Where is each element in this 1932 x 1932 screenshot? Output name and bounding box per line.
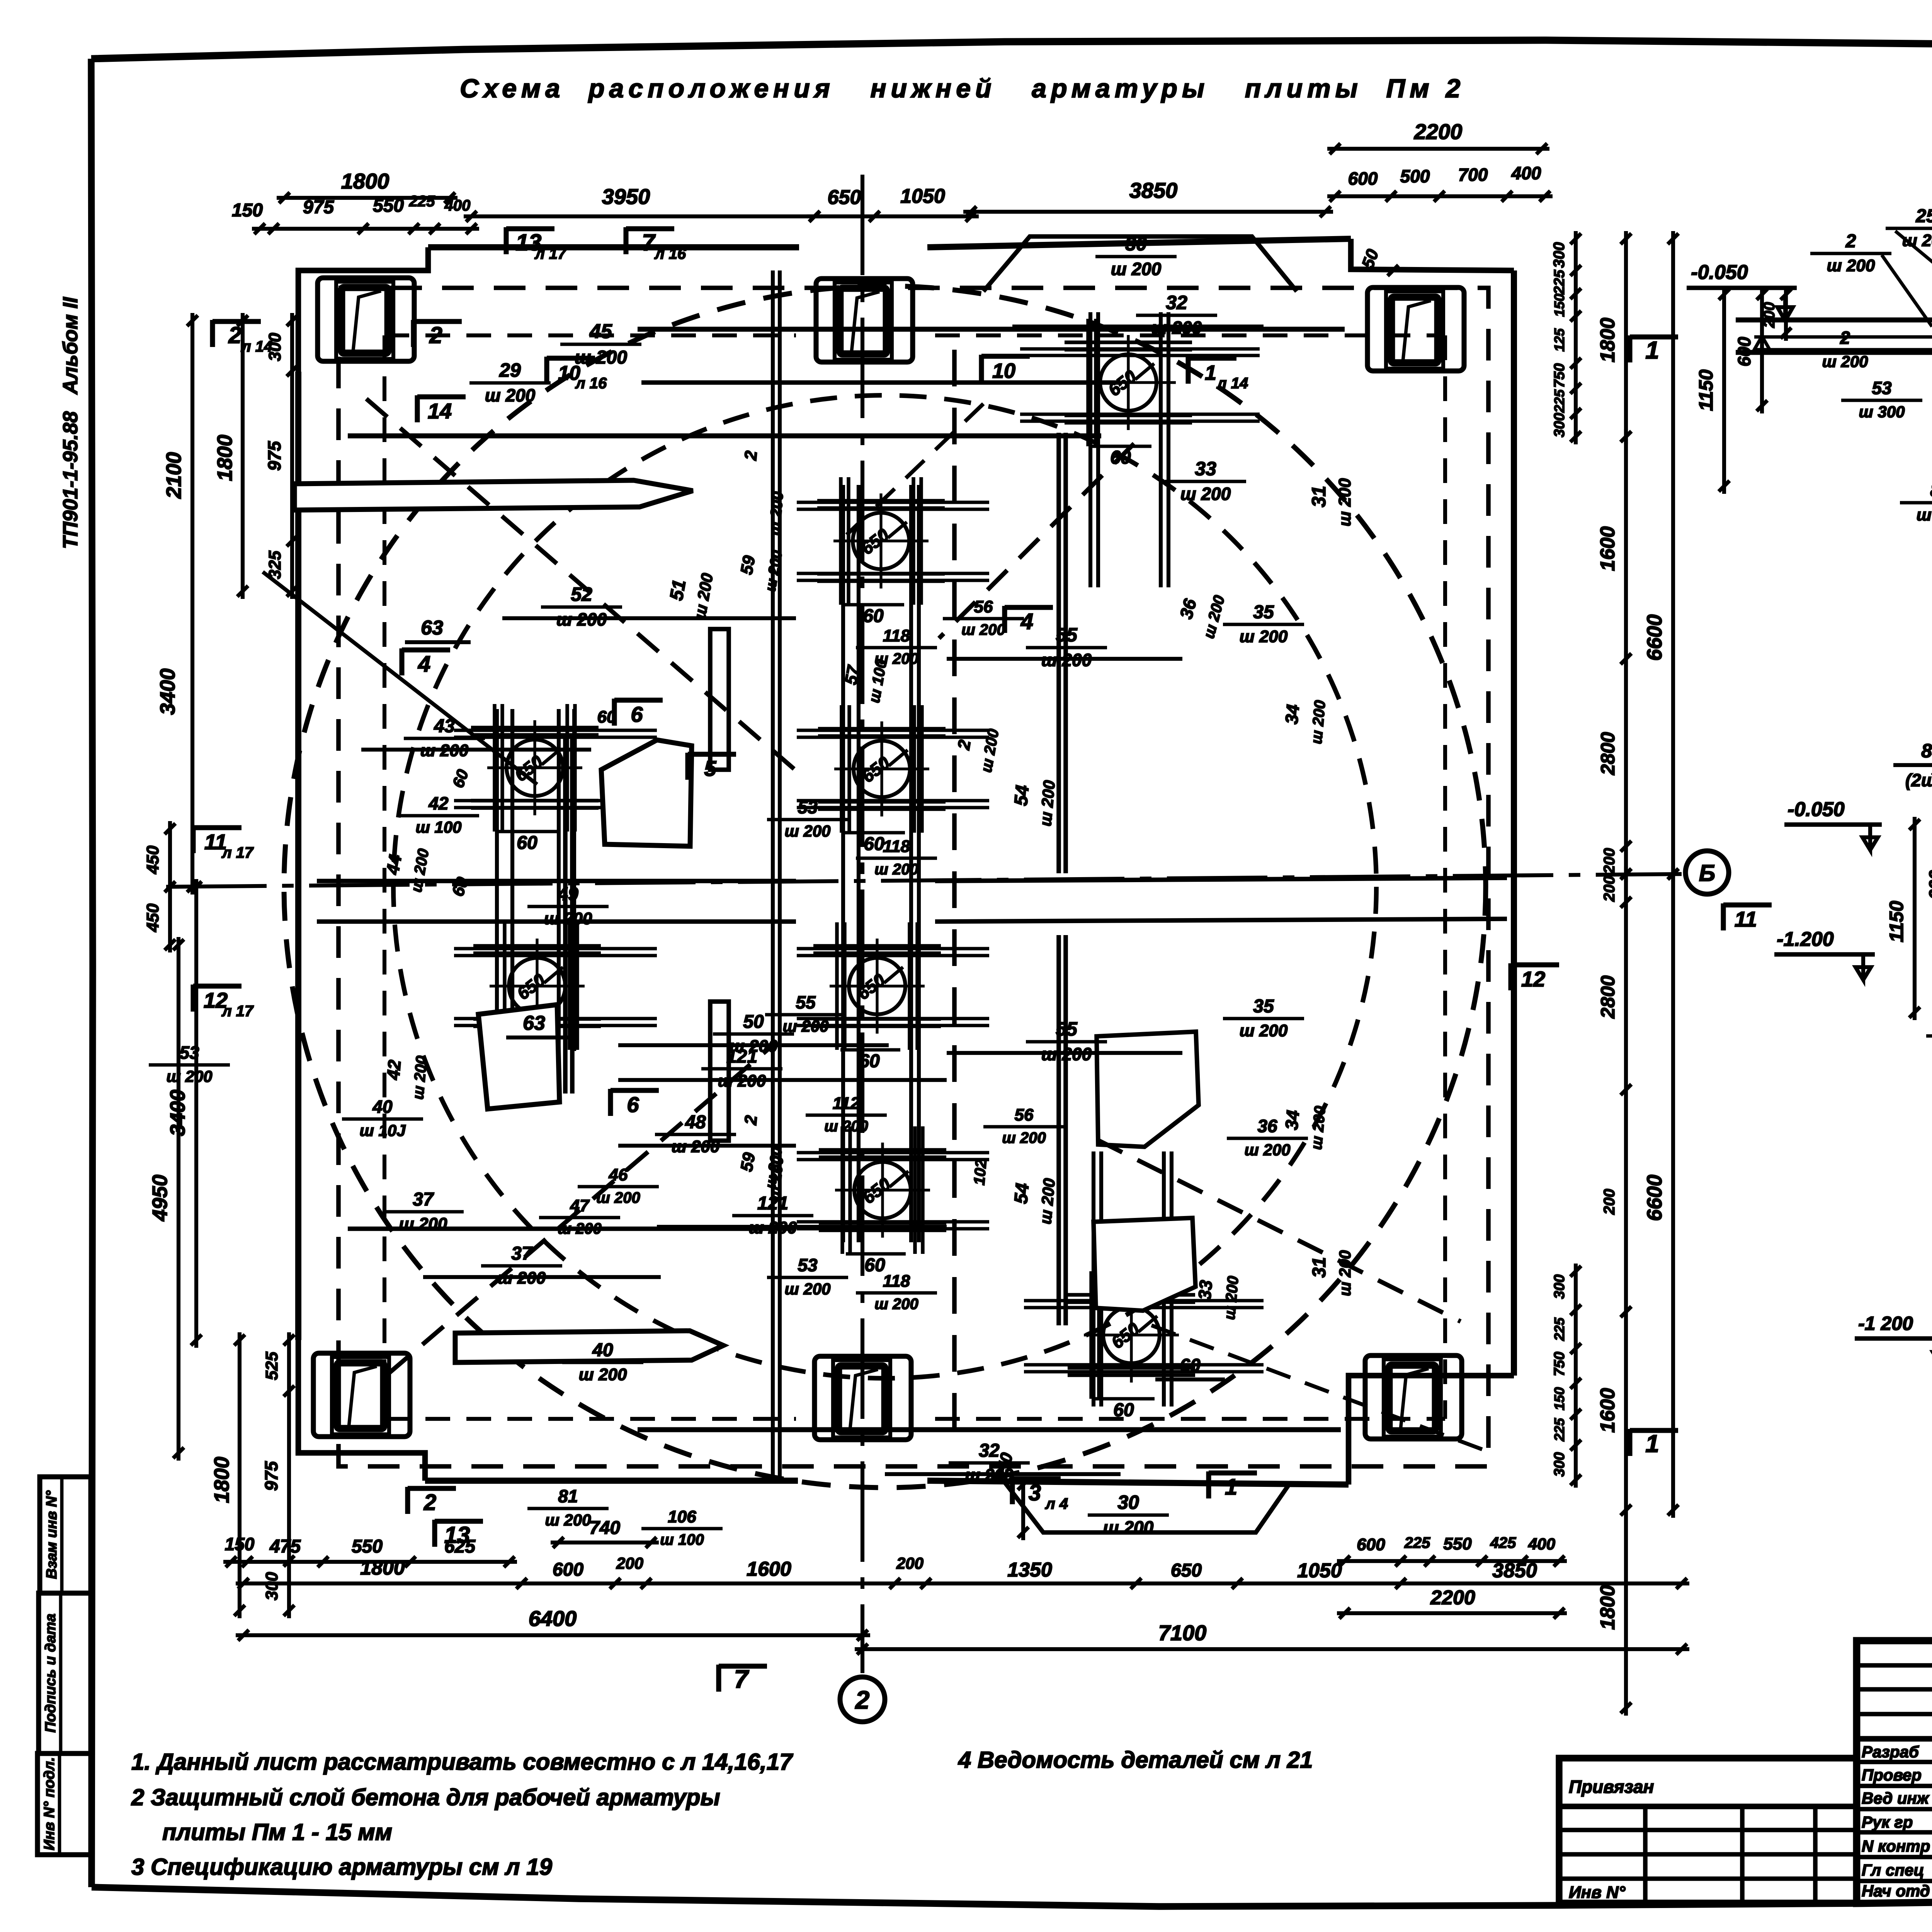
hole 650 #6 — [849, 958, 905, 1014]
svg-text:300: 300 — [1551, 413, 1568, 437]
rebar horizontal bundle upper-mid — [641, 380, 1121, 385]
dim top 650-1050 — [807, 214, 979, 218]
svg-text:650: 650 — [1171, 1560, 1202, 1581]
svg-text:600: 600 — [1357, 1535, 1385, 1554]
svg-text:2800: 2800 — [1597, 732, 1619, 775]
mark 10 л 16 — [544, 357, 549, 384]
svg-text:Схема расположения нижней: Схема расположения нижней арматуры плиты… — [460, 74, 1465, 103]
rebar long vertical pair A — [563, 734, 568, 1094]
rebar horizontal bundle top — [638, 327, 1345, 332]
svg-text:600: 600 — [1925, 870, 1932, 900]
dim left 2100 — [190, 313, 194, 895]
svg-text:3400: 3400 — [156, 668, 179, 715]
svg-text:1: 1 — [1645, 1430, 1659, 1458]
svg-text:37: 37 — [413, 1189, 434, 1210]
hole 650 #7 — [854, 1162, 911, 1218]
svg-text:700: 700 — [1458, 165, 1488, 185]
mark 10 upper-centre — [979, 355, 984, 382]
section mark 7 bottom — [716, 1665, 721, 1692]
svg-text:ш 200: ш 200 — [874, 650, 918, 667]
svg-text:Подпись и дата: Подпись и дата — [43, 1614, 59, 1733]
diagonal dashed leader 4 — [388, 1045, 773, 1374]
svg-text:35: 35 — [1253, 602, 1274, 622]
svg-text:14: 14 — [428, 399, 452, 423]
svg-text:ш 200: ш 200 — [1240, 627, 1288, 646]
svg-text:3 Спецификацию арматуры см л: 3 Спецификацию арматуры см л 19 — [131, 1854, 553, 1880]
column pad bottom-right — [1384, 1359, 1441, 1437]
svg-text:150: 150 — [232, 200, 263, 221]
dim bottom main row — [236, 1582, 1689, 1585]
svg-text:Б: Б — [1699, 860, 1715, 886]
rebar bar vertical 2 — [710, 1002, 729, 1141]
section 4-4 rebar hooks left — [1754, 336, 1770, 350]
svg-text:1: 1 — [1645, 336, 1659, 364]
svg-text:1350: 1350 — [1007, 1559, 1052, 1581]
dim top 3850 — [963, 210, 1333, 214]
section 4-4 slab left — [1736, 318, 1932, 323]
svg-text:400: 400 — [1528, 1535, 1555, 1553]
svg-text:45: 45 — [589, 320, 612, 343]
svg-text:60: 60 — [864, 1255, 885, 1276]
section mark 14 upper — [415, 395, 420, 422]
svg-text:-1.200: -1.200 — [1777, 928, 1834, 951]
svg-text:2: 2 — [741, 450, 761, 461]
column pad bay top-right — [1367, 287, 1464, 371]
svg-text:л 14: л 14 — [241, 338, 273, 355]
dim right 6600 upper — [1671, 231, 1675, 882]
svg-text:ш 10Ј: ш 10Ј — [359, 1121, 406, 1139]
svg-text:6600: 6600 — [1643, 614, 1666, 661]
svg-text:Провер: Провер — [1862, 1766, 1922, 1784]
section 4-4 leaders — [1895, 231, 1932, 294]
section mark 7 top — [623, 227, 628, 254]
svg-text:2800: 2800 — [1597, 975, 1619, 1019]
svg-text:ш 200: ш 200 — [545, 1511, 591, 1529]
svg-text:225: 225 — [1551, 1418, 1567, 1442]
slab edge step bottom-left — [298, 1340, 425, 1481]
hole 650 #3 — [507, 740, 563, 796]
svg-text:54: 54 — [1011, 1182, 1033, 1205]
svg-text:ш 100: ш 100 — [660, 1531, 704, 1548]
rebar bundle row horizontals — [797, 501, 989, 504]
svg-text:51: 51 — [666, 578, 690, 602]
hole 650 #2 — [853, 513, 909, 569]
slab edge step bottom-right — [1349, 1376, 1514, 1485]
svg-text:1050: 1050 — [1297, 1560, 1342, 1582]
svg-text:118: 118 — [883, 626, 910, 645]
svg-text:600: 600 — [1348, 168, 1378, 189]
column pad bay bottom-left — [313, 1353, 410, 1437]
svg-text:1600: 1600 — [1597, 1388, 1619, 1433]
svg-text:975: 975 — [303, 197, 334, 218]
hole 650 #8 — [1103, 1307, 1160, 1363]
slot bar lower — [455, 1331, 723, 1362]
section mark 2 centre — [411, 320, 416, 347]
section mark 2 left — [210, 320, 215, 347]
svg-text:Инв N° подл.: Инв N° подл. — [41, 1757, 58, 1850]
svg-text:ш 200: ш 200 — [1111, 259, 1162, 279]
dim bottom 7100 — [855, 1647, 1689, 1651]
svg-text:500: 500 — [1400, 166, 1430, 186]
svg-text:150: 150 — [1551, 1387, 1567, 1410]
svg-text:60: 60 — [863, 606, 884, 626]
svg-text:35: 35 — [1253, 996, 1274, 1017]
svg-text:60: 60 — [1180, 1355, 1201, 1376]
svg-text:475: 475 — [269, 1536, 301, 1557]
page frame bottom border — [92, 1887, 1932, 1906]
plan dashed secondary rect segments — [384, 333, 796, 337]
svg-text:36: 36 — [1257, 1116, 1277, 1136]
svg-text:34: 34 — [1281, 704, 1303, 725]
section mark 1 right top — [1627, 335, 1632, 362]
svg-text:1150: 1150 — [1886, 901, 1907, 942]
svg-text:4: 4 — [418, 651, 430, 677]
svg-text:ш 200: ш 200 — [782, 1017, 828, 1035]
column pad bottom-left — [332, 1357, 389, 1434]
dim right 1600 upper — [1624, 429, 1628, 667]
svg-text:48: 48 — [685, 1112, 706, 1133]
section mark 4 right — [1002, 606, 1007, 633]
svg-text:300: 300 — [262, 1572, 281, 1600]
svg-text:225: 225 — [409, 193, 435, 210]
svg-text:л 17: л 17 — [221, 844, 254, 861]
diagonal dashed leader 6 — [1151, 1325, 1492, 1453]
svg-text:Разраб: Разраб — [1862, 1743, 1919, 1761]
dim top 2200 — [1327, 147, 1549, 151]
rebar double vertical centre-left — [771, 270, 775, 1480]
svg-text:300: 300 — [1551, 1274, 1568, 1299]
svg-text:55: 55 — [796, 992, 816, 1012]
svg-text:Нач отд: Нач отд — [1862, 1882, 1930, 1900]
svg-text:44: 44 — [382, 853, 405, 876]
svg-text:-0.050: -0.050 — [1787, 798, 1845, 821]
dim bottom right 2200 — [1337, 1611, 1567, 1615]
svg-text:60: 60 — [859, 1051, 880, 1071]
svg-text:450: 450 — [143, 845, 162, 874]
svg-text:2200: 2200 — [1430, 1587, 1475, 1609]
rebar long vertical pair B — [1056, 433, 1061, 873]
svg-text:6: 6 — [631, 702, 643, 726]
section mark 3 bottom — [1010, 1477, 1015, 1504]
svg-text:1800: 1800 — [210, 1457, 233, 1503]
svg-text:л 17: л 17 — [534, 245, 567, 262]
plan dashed inner boundary rect — [338, 288, 1488, 1466]
svg-text:ш 200: ш 200 — [1244, 1141, 1290, 1159]
svg-text:2: 2 — [228, 322, 241, 348]
svg-text:л 4: л 4 — [1045, 1495, 1068, 1512]
axis horizontal B — [166, 874, 1682, 887]
slab top edge left span — [428, 244, 799, 250]
svg-text:л 16: л 16 — [654, 245, 686, 262]
dim 740 bottom — [551, 1541, 659, 1544]
svg-text:84: 84 — [1930, 480, 1932, 501]
svg-text:ш 200: ш 200 — [596, 1189, 640, 1206]
section mark 1 right bottom — [1627, 1429, 1632, 1456]
dim bottom right sub row — [1337, 1559, 1567, 1563]
slab edge step top-left — [298, 247, 428, 372]
rebar bundle bottom hole verticals — [1092, 1151, 1095, 1406]
svg-text:ш 200: ш 200 — [1917, 505, 1932, 524]
dim top 3950 — [464, 214, 822, 218]
section mark 4 left — [399, 648, 404, 675]
svg-text:33: 33 — [1195, 458, 1216, 480]
rebar bar vertical 1 — [710, 629, 729, 770]
svg-text:56: 56 — [1015, 1105, 1034, 1124]
dim right sub chain — [1574, 231, 1578, 444]
section mark 6 lower — [608, 1089, 613, 1116]
svg-text:1: 1 — [1225, 1475, 1237, 1500]
svg-text:525: 525 — [262, 1352, 281, 1380]
slab bottom edge right span — [927, 1481, 1349, 1485]
key quad right-upper — [1097, 1032, 1199, 1147]
svg-text:плиты Пм 1 - 15 мм: плиты Пм 1 - 15 мм — [162, 1819, 392, 1845]
svg-text:750: 750 — [1551, 1352, 1568, 1376]
svg-text:740: 740 — [589, 1518, 620, 1538]
svg-text:2: 2 — [1840, 328, 1850, 348]
svg-text:2: 2 — [1845, 231, 1856, 252]
svg-text:2: 2 — [741, 1114, 761, 1126]
section mark 11 left — [190, 826, 196, 853]
dim right 1800 upper — [1624, 231, 1628, 444]
titleblock left table grid — [1857, 1663, 1932, 1668]
svg-text:53: 53 — [179, 1043, 199, 1063]
svg-text:1800: 1800 — [213, 435, 236, 481]
svg-text:102: 102 — [971, 1159, 990, 1186]
svg-text:600: 600 — [553, 1560, 583, 1580]
svg-text:ш 200: ш 200 — [485, 385, 536, 405]
svg-text:225: 225 — [1551, 269, 1568, 294]
dim right 6600 lower — [1671, 866, 1675, 1518]
hole 650 #1 — [1100, 354, 1156, 411]
diagonal dashed leader 2 — [939, 444, 1134, 638]
svg-text:118: 118 — [883, 837, 910, 856]
section mark 5 mid — [685, 753, 690, 780]
svg-text:12: 12 — [1521, 967, 1545, 991]
svg-text:325: 325 — [265, 551, 284, 579]
svg-text:Вед инж: Вед инж — [1862, 1789, 1930, 1807]
section mark 2 bottom-left — [405, 1487, 410, 1514]
svg-text:1. Данный лист рассматривать: 1. Данный лист рассматривать совместно с… — [131, 1749, 793, 1775]
svg-text:ш 200: ш 200 — [1822, 352, 1868, 371]
svg-text:112: 112 — [833, 1094, 860, 1113]
svg-text:ш 200: ш 200 — [961, 621, 1005, 638]
section mark 12 left — [190, 985, 196, 1012]
svg-text:50: 50 — [743, 1012, 764, 1032]
svg-text:37: 37 — [511, 1243, 533, 1264]
section mark 13 top — [503, 227, 509, 254]
svg-text:55: 55 — [1056, 624, 1078, 646]
svg-text:7100: 7100 — [1158, 1621, 1207, 1645]
svg-text:29: 29 — [499, 359, 521, 381]
svg-text:ш 200: ш 200 — [579, 1365, 627, 1384]
svg-text:55: 55 — [1056, 1018, 1078, 1040]
svg-text:400: 400 — [1511, 163, 1541, 183]
svg-text:3950: 3950 — [602, 184, 650, 209]
svg-text:975: 975 — [261, 1461, 281, 1491]
svg-text:ш 200: ш 200 — [399, 1214, 447, 1233]
svg-text:1600: 1600 — [1597, 526, 1619, 571]
key quad right-lower — [1094, 1218, 1196, 1311]
sidebar box vzam — [40, 1477, 91, 1593]
svg-text:40: 40 — [592, 1340, 613, 1361]
svg-text:N контр: N контр — [1862, 1837, 1930, 1855]
svg-text:4950: 4950 — [148, 1175, 172, 1221]
svg-text:60: 60 — [1113, 1400, 1134, 1420]
dim top subdivision row — [252, 227, 479, 231]
svg-text:32: 32 — [979, 1440, 1000, 1461]
svg-text:54: 54 — [1011, 784, 1033, 807]
rebar bundle left column verticals — [495, 709, 499, 1051]
svg-text:ш 200: ш 200 — [874, 1296, 918, 1313]
section 4-4 dim 600 — [1760, 287, 1764, 413]
svg-text:2: 2 — [423, 1490, 436, 1515]
svg-text:59: 59 — [737, 554, 759, 576]
svg-text:550: 550 — [373, 196, 404, 216]
titleblock outer box — [1857, 1641, 1932, 1903]
svg-text:ш 200: ш 200 — [1180, 484, 1231, 504]
rebar horizontal mid2 — [317, 919, 796, 924]
section mark 6 upper — [612, 699, 617, 726]
titleblock privyazan table — [1559, 1758, 1857, 1903]
section mark 1 bottom — [1206, 1471, 1211, 1498]
slot bar upper — [294, 480, 693, 510]
svg-text:63: 63 — [421, 617, 443, 639]
svg-text:ТП901-1-95.88 Альбом II: ТП901-1-95.88 Альбом II — [59, 297, 82, 549]
svg-text:200: 200 — [1601, 1189, 1618, 1215]
svg-text:2: 2 — [855, 1685, 870, 1714]
key quad upper-left — [601, 740, 692, 846]
svg-text:ш 300: ш 300 — [1859, 403, 1905, 421]
dim bottom 6400 — [236, 1633, 870, 1637]
column pad bottom-centre — [833, 1360, 890, 1437]
rebar bundle centre column verticals — [841, 485, 845, 1242]
svg-text:Рук гр: Рук гр — [1862, 1813, 1913, 1831]
svg-text:6: 6 — [627, 1092, 639, 1117]
svg-text:200: 200 — [1761, 302, 1778, 328]
svg-text:30: 30 — [1125, 233, 1147, 255]
dim top right subdivision — [1327, 194, 1553, 198]
dim left 1800 lower — [238, 1332, 241, 1618]
axis circle 2 — [840, 1677, 885, 1722]
svg-text:(2шт): (2шт) — [1905, 770, 1932, 790]
dim left 450 450 — [168, 821, 172, 952]
trapezoid mark 30 bottom — [1005, 1482, 1291, 1532]
svg-text:750: 750 — [1551, 363, 1568, 388]
svg-text:ш 200: ш 200 — [544, 909, 592, 928]
dim left 4950 — [177, 937, 180, 1461]
svg-text:60: 60 — [517, 833, 537, 853]
svg-text:200: 200 — [1601, 876, 1618, 902]
svg-text:л 14: л 14 — [1216, 375, 1248, 392]
rebar horizontal lower — [348, 1226, 796, 1231]
axis circle B — [1685, 851, 1729, 894]
svg-text:ш 200: ш 200 — [1002, 1129, 1046, 1146]
svg-text:42: 42 — [428, 793, 449, 813]
diagonal dashed leader 3 — [846, 404, 983, 535]
column pad bay bottom-right — [1365, 1355, 1462, 1439]
svg-text:550: 550 — [352, 1536, 383, 1557]
column pad bay bottom-centre — [815, 1356, 911, 1440]
svg-text:-1 200: -1 200 — [1858, 1313, 1913, 1334]
dim right 200 upper — [1624, 651, 1628, 882]
plan outer dashed circle — [284, 286, 1486, 1488]
svg-text:2200: 2200 — [1414, 119, 1463, 144]
svg-text:150: 150 — [225, 1534, 255, 1554]
rebar bundle top hole verticals — [1088, 312, 1092, 587]
svg-text:1800: 1800 — [360, 1557, 405, 1579]
dim bottom sub row 150-475-550-625 — [223, 1560, 517, 1564]
svg-text:3: 3 — [1029, 1480, 1041, 1505]
rebar horizontal mid1 — [317, 879, 796, 883]
page frame top border — [91, 40, 1932, 59]
svg-text:1800: 1800 — [341, 169, 389, 193]
column pad bay top-left — [318, 278, 414, 361]
svg-text:1600: 1600 — [747, 1558, 791, 1580]
svg-text:53: 53 — [798, 1255, 818, 1275]
svg-text:ш 200: ш 200 — [166, 1067, 212, 1085]
page frame left border — [91, 59, 93, 1887]
svg-text:2100: 2100 — [162, 452, 185, 499]
svg-text:2 Защитный слой бетона для: 2 Защитный слой бетона для рабочей армат… — [131, 1784, 720, 1810]
svg-text:ш 200: ш 200 — [558, 1220, 601, 1237]
svg-text:550: 550 — [1443, 1534, 1472, 1553]
svg-text:121: 121 — [726, 1046, 757, 1067]
column pad top-centre — [835, 282, 892, 360]
svg-text:ш 200: ш 200 — [1336, 1250, 1354, 1296]
svg-text:31: 31 — [1309, 1257, 1330, 1277]
section mark 13 bottom — [432, 1520, 437, 1547]
column pad top-left — [336, 282, 393, 359]
svg-text:25: 25 — [1915, 206, 1932, 226]
dim left sub 300-975-325 — [290, 313, 294, 599]
svg-text:49: 49 — [557, 884, 578, 905]
dim left 1800 upper — [241, 313, 245, 599]
svg-text:4: 4 — [1020, 609, 1033, 634]
hole 650 #5 — [509, 958, 565, 1014]
svg-text:106: 106 — [668, 1507, 696, 1526]
svg-text:200: 200 — [616, 1554, 643, 1572]
svg-text:ш 204: ш 204 — [1902, 231, 1932, 250]
svg-text:56: 56 — [974, 597, 993, 616]
mark 1 л 14 upper-right — [1185, 357, 1190, 384]
slab right edge — [1511, 270, 1517, 1376]
svg-text:ш 200: ш 200 — [1827, 256, 1875, 275]
svg-text:81: 81 — [558, 1486, 578, 1506]
svg-text:53: 53 — [1872, 378, 1892, 398]
svg-text:30: 30 — [1117, 1492, 1139, 1513]
slab edge step top-right — [1351, 239, 1514, 270]
svg-text:47: 47 — [570, 1196, 590, 1215]
svg-text:59: 59 — [737, 1151, 759, 1173]
svg-text:1800: 1800 — [1597, 1585, 1619, 1630]
svg-text:4 Ведомость деталей см л 21: 4 Ведомость деталей см л 21 — [958, 1747, 1313, 1773]
svg-text:Взам инв N°: Взам инв N° — [44, 1490, 60, 1579]
svg-text:11: 11 — [1735, 907, 1757, 931]
svg-text:6600: 6600 — [1643, 1175, 1666, 1221]
svg-text:7: 7 — [734, 1665, 750, 1693]
svg-text:ш 100: ш 100 — [415, 818, 461, 836]
section mark 12 right — [1508, 963, 1513, 990]
svg-text:ш 200: ш 200 — [784, 1280, 830, 1298]
svg-text:5: 5 — [704, 756, 716, 781]
svg-text:300: 300 — [1551, 242, 1568, 268]
svg-text:13: 13 — [444, 1522, 470, 1548]
svg-text:1050: 1050 — [900, 185, 945, 207]
svg-text:225: 225 — [1404, 1534, 1430, 1551]
svg-text:ш 200: ш 200 — [874, 861, 918, 878]
svg-text:425: 425 — [1490, 1534, 1516, 1551]
mark 11 right — [1721, 903, 1726, 930]
